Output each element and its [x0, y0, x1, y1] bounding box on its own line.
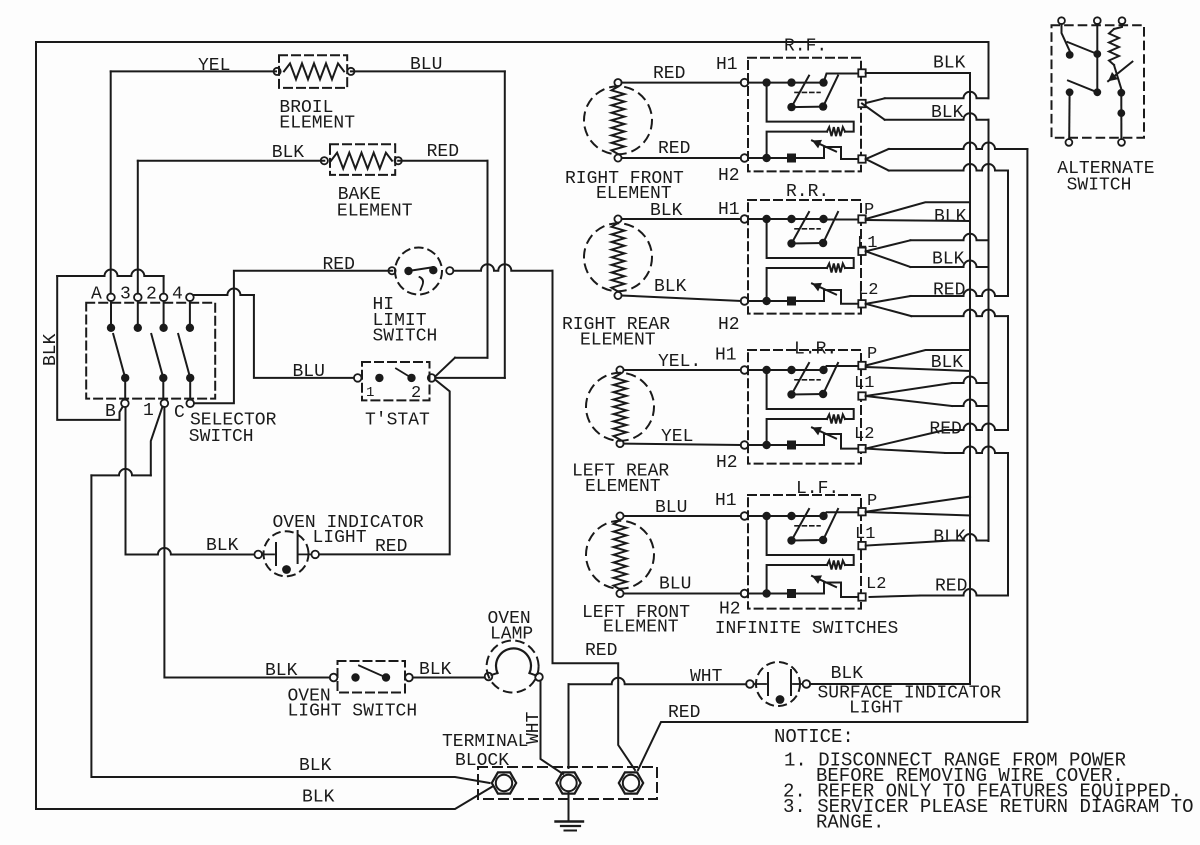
svg-text:L1: L1 — [857, 234, 877, 253]
wire: RED RIGHT FRONT H2 lead — [622, 139, 741, 159]
hi limit switch — [373, 248, 454, 347]
label: H2 L.F. — [719, 600, 741, 620]
selector switch — [86, 285, 215, 424]
svg-text:YEL.: YEL. — [658, 352, 701, 372]
svg-text:BLU: BLU — [655, 498, 687, 518]
label: H2 L.R. — [716, 453, 738, 473]
wire: L.R. P stubs — [866, 345, 970, 373]
svg-text:RED: RED — [668, 703, 700, 723]
svg-text:2: 2 — [146, 285, 157, 305]
oven light switch — [330, 661, 413, 693]
wire: BLU broil to T'STAT-2 — [351, 55, 505, 378]
svg-text:L2: L2 — [858, 281, 878, 300]
label: RED bottom-right — [668, 703, 700, 723]
wire: BLK bake feed to selector 3 — [138, 143, 324, 294]
svg-text:BLK: BLK — [654, 277, 687, 297]
wire: R.R. L1 stubs — [857, 234, 989, 270]
svg-text:H1: H1 — [715, 346, 737, 366]
svg-text:H2: H2 — [718, 315, 740, 335]
svg-text:BLK: BLK — [933, 54, 966, 74]
label: H2 R.F. — [718, 166, 740, 186]
svg-text:BLK: BLK — [831, 664, 864, 684]
svg-text:2: 2 — [411, 384, 421, 403]
wire: P pilot bus V1 to surface indicator — [810, 54, 970, 685]
svg-text:BLK: BLK — [302, 788, 335, 808]
svg-text:L2: L2 — [866, 575, 886, 594]
wire: V3 RED chain segment 1 — [1007, 171, 1009, 297]
broil element — [274, 55, 356, 133]
notice text — [774, 726, 1193, 834]
wire: R.F. L2 to V3 lower — [866, 159, 1008, 171]
element: LEFT REAR — [586, 366, 654, 447]
label: H1 L.R. — [715, 346, 737, 366]
svg-text:TERMINAL: TERMINAL — [442, 732, 528, 752]
svg-text:RED: RED — [653, 64, 685, 84]
svg-text:BLK: BLK — [265, 661, 298, 681]
wire: V4 RED drop to terminal block — [638, 149, 1027, 770]
label: R.R. — [786, 182, 829, 202]
svg-text:BLOCK: BLOCK — [455, 751, 509, 771]
svg-text:1: 1 — [366, 385, 374, 401]
label: RIGHT FRONT ELEMENT — [565, 169, 684, 204]
svg-text:4: 4 — [172, 285, 183, 305]
wire: YEL. LEFT REAR H1 lead — [624, 352, 741, 372]
label: L.F. — [796, 479, 839, 499]
wire: YEL LEFT REAR H2 lead — [624, 427, 741, 447]
wire: L.F. L1 stub — [855, 525, 989, 548]
svg-text:BLK: BLK — [272, 143, 305, 163]
wire: oven lamp neutral to terminal block (WHT) — [541, 681, 564, 775]
svg-text:LIGHT SWITCH: LIGHT SWITCH — [288, 702, 418, 722]
svg-text:RED: RED — [323, 255, 355, 275]
wire: selector C to RED hi-limit wire — [194, 255, 392, 403]
svg-text:H2: H2 — [716, 453, 738, 473]
svg-text:BLK: BLK — [931, 103, 964, 123]
wire: T'STAT-2 to oven indicator (RED) — [319, 380, 450, 558]
infinite switch R.F. — [741, 58, 866, 172]
svg-text:P: P — [864, 201, 874, 220]
svg-text:H2: H2 — [718, 166, 740, 186]
label: BLK rotated left border — [41, 333, 61, 366]
label: R.F. — [784, 37, 827, 57]
svg-text:BLK: BLK — [931, 353, 964, 373]
svg-text:RED: RED — [427, 142, 459, 162]
wire: L.R. L1 stubs — [854, 374, 989, 406]
wire: BLK RIGHT REAR H1 lead — [622, 201, 741, 221]
svg-text:H1: H1 — [716, 55, 738, 75]
svg-text:H1: H1 — [718, 200, 740, 220]
svg-text:R.R.: R.R. — [786, 182, 829, 202]
svg-text:WHT: WHT — [690, 667, 723, 687]
terminal block — [478, 767, 657, 799]
infinite switch L.R. — [741, 350, 866, 464]
label: L.R. — [794, 340, 837, 360]
svg-text:SWITCH: SWITCH — [373, 327, 438, 347]
label: OVEN LAMP — [488, 609, 534, 645]
wire: WHT to surface light and terminal block — [569, 667, 747, 768]
label: INFINITE SWITCHES — [715, 619, 899, 639]
svg-text:YEL: YEL — [198, 56, 230, 76]
label: LEFT REAR ELEMENT — [572, 462, 669, 498]
svg-text:BLK: BLK — [299, 756, 332, 776]
alternate switch — [1052, 17, 1145, 146]
svg-text:SWITCH: SWITCH — [1067, 176, 1132, 196]
wire: R.F. L2 to V4 upper — [866, 143, 1028, 159]
svg-text:RANGE.: RANGE. — [816, 812, 884, 834]
label: H1 L.F. — [715, 491, 737, 511]
label: WHT (rotated) — [524, 711, 544, 744]
wire: RED bake right drop to T'STAT-2 — [398, 142, 487, 377]
svg-text:ELEMENT: ELEMENT — [585, 477, 661, 497]
svg-text:NOTICE:: NOTICE: — [774, 726, 854, 748]
svg-text:ELEMENT: ELEMENT — [580, 331, 656, 351]
bake element — [321, 144, 413, 221]
wire: top BLK line and left border — [36, 42, 989, 809]
svg-text:BLK: BLK — [933, 528, 966, 548]
oven indicator light — [254, 531, 319, 576]
wire: selector 1 to oven light switch — [164, 407, 329, 681]
svg-text:YEL: YEL — [661, 427, 693, 447]
wire: R.R. L2 stubs — [858, 281, 1008, 317]
infinite switch L.F. — [741, 495, 866, 609]
svg-text:A: A — [91, 285, 102, 305]
label: BLK lower border wire — [302, 788, 335, 808]
oven lamp — [485, 641, 543, 693]
svg-text:1: 1 — [143, 401, 154, 421]
element: RIGHT REAR — [584, 215, 652, 299]
wire: V3 RED chain segment 2 — [1007, 316, 1009, 429]
wire: switch to oven lamp — [413, 677, 485, 679]
label: ALTERNATE SWITCH — [1057, 159, 1154, 196]
svg-text:H2: H2 — [719, 600, 741, 620]
wire: selector B to 2 loop — [57, 270, 163, 420]
svg-text:ELEMENT: ELEMENT — [279, 114, 355, 134]
wire: selector 4 to T'STAT-1 (BLU) — [194, 289, 354, 383]
svg-text:RED: RED — [658, 139, 690, 159]
infinite switch R.R. — [741, 200, 866, 314]
svg-text:T'STAT: T'STAT — [365, 411, 430, 431]
wire: selector 1 to terminal block (upper BLK) — [91, 407, 489, 784]
svg-text:L2: L2 — [854, 425, 874, 444]
svg-text:RED: RED — [929, 420, 961, 440]
svg-text:RED: RED — [933, 281, 965, 301]
wire: L.F. P stubs — [866, 492, 970, 516]
label: OVEN LIGHT SWITCH — [288, 660, 452, 722]
element: LEFT FRONT — [586, 512, 654, 597]
svg-text:R.F.: R.F. — [784, 37, 827, 57]
label: SURFACE INDICATOR LIGHT — [818, 684, 1002, 719]
wire: hi-limit to RED drop to terminal block — [453, 264, 635, 770]
wire: selector B to oven indicator (BLK) — [126, 407, 255, 556]
svg-text:L.F.: L.F. — [796, 479, 839, 499]
svg-text:RED: RED — [935, 577, 967, 597]
label: TERMINAL BLOCK — [442, 732, 528, 771]
label: H1 R.R. — [718, 200, 740, 220]
wire: L.F. L2 stub — [866, 575, 1008, 597]
svg-text:LIGHT: LIGHT — [313, 528, 367, 548]
element: RIGHT FRONT — [584, 79, 652, 162]
svg-text:BLK: BLK — [650, 201, 683, 221]
wire: R.R. P stubs — [864, 201, 970, 227]
wire: YEL broil feed, drop to selector A — [111, 56, 276, 294]
svg-text:L.R.: L.R. — [794, 340, 837, 360]
svg-text:LAMP: LAMP — [490, 625, 533, 645]
label: LEFT FRONT ELEMENT — [582, 603, 690, 638]
svg-text:RED: RED — [375, 537, 407, 557]
svg-text:BLU: BLU — [659, 575, 691, 595]
svg-text:BLU: BLU — [410, 55, 442, 75]
svg-text:L1: L1 — [854, 374, 874, 393]
svg-text:INFINITE SWITCHES: INFINITE SWITCHES — [715, 619, 899, 639]
svg-text:LIGHT: LIGHT — [849, 699, 903, 719]
ground — [556, 793, 584, 831]
svg-text:C: C — [174, 403, 185, 423]
wire: BLK RIGHT REAR H2 lead — [622, 277, 741, 301]
svg-text:SWITCH: SWITCH — [189, 427, 254, 447]
wire: BLU LEFT FRONT H1 lead — [624, 498, 741, 518]
wire: RED RIGHT FRONT H1 lead — [622, 64, 741, 84]
svg-text:3: 3 — [120, 285, 131, 305]
svg-text:RED: RED — [585, 641, 617, 661]
wire: V3 RED chain segment 3 — [1007, 454, 1009, 596]
label: H2 R.R. — [718, 315, 740, 335]
svg-text:H1: H1 — [715, 491, 737, 511]
svg-text:ELEMENT: ELEMENT — [337, 202, 413, 222]
svg-text:ELEMENT: ELEMENT — [603, 618, 679, 638]
label: RIGHT REAR ELEMENT — [562, 315, 670, 351]
svg-text:SURFACE INDICATOR: SURFACE INDICATOR — [818, 684, 1002, 704]
wire: L.R. L2 stubs — [854, 420, 1008, 454]
label: OVEN INDICATOR LIGHT — [273, 513, 424, 548]
svg-text:P: P — [867, 492, 877, 511]
svg-text:BLK: BLK — [934, 207, 967, 227]
label: SELECTOR SWITCH — [189, 411, 277, 448]
svg-text:BLK: BLK — [932, 250, 965, 270]
t'stat — [354, 362, 436, 431]
svg-text:BLK: BLK — [206, 536, 239, 556]
wire: BLU LEFT FRONT H2 lead — [624, 575, 741, 595]
wire: L1 bus V2 — [862, 103, 989, 541]
label: H1 R.F. — [716, 55, 738, 75]
surface indicator light — [746, 662, 810, 706]
svg-text:BLU: BLU — [293, 362, 325, 382]
svg-text:L1: L1 — [855, 525, 875, 544]
svg-text:P: P — [867, 345, 877, 364]
